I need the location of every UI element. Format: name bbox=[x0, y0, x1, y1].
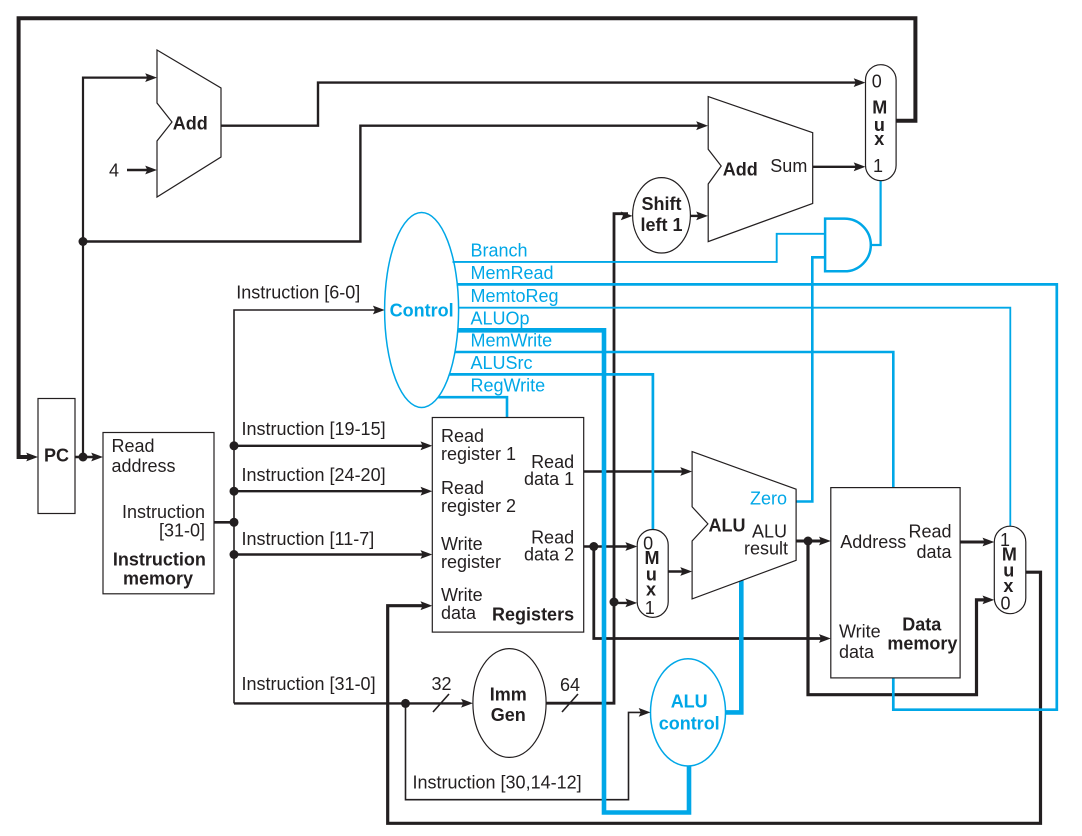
slash 32-bit bbox=[433, 694, 449, 712]
arrow into top mux input 1 bbox=[854, 162, 866, 171]
arrow into right mux input 0 bbox=[983, 596, 995, 605]
wire instruction bus vertical with branch to Control bbox=[234, 310, 380, 703]
svg-text:64: 64 bbox=[560, 675, 580, 695]
wire Imm Gen output up to Shift left 1 bbox=[546, 214, 628, 704]
Imm Gen ellipse bbox=[473, 649, 546, 758]
wire Read data 2 down to data memory write data bbox=[594, 547, 826, 639]
svg-text:Read: Read bbox=[112, 436, 155, 456]
svg-text:1: 1 bbox=[873, 156, 883, 176]
svg-text:Sum: Sum bbox=[770, 156, 807, 176]
svg-text:ALUOp: ALUOp bbox=[471, 309, 530, 329]
svg-text:MemRead: MemRead bbox=[471, 263, 554, 283]
svg-text:register 1: register 1 bbox=[441, 444, 516, 464]
wire Sum output to top mux input 1 bbox=[813, 166, 861, 168]
junction read data 2 bbox=[589, 542, 598, 551]
wire Instruction [31-0] to Imm Gen bbox=[234, 702, 468, 704]
wire PC feedback loop from top mux output around top and left to PC bbox=[19, 18, 916, 457]
svg-text:4: 4 bbox=[109, 161, 119, 181]
svg-text:Instruction [6-0]: Instruction [6-0] bbox=[236, 283, 360, 303]
arrow into ALU input 2 bbox=[680, 567, 692, 576]
wire Read data 2 to ALU mux input 0 bbox=[584, 545, 633, 547]
svg-text:data: data bbox=[916, 542, 952, 562]
svg-text:data 1: data 1 bbox=[524, 469, 574, 489]
svg-text:Read: Read bbox=[441, 426, 484, 446]
svg-text:address: address bbox=[112, 456, 176, 476]
svg-text:Instruction [24-20]: Instruction [24-20] bbox=[242, 465, 386, 485]
svg-text:Write: Write bbox=[839, 621, 881, 641]
junction ALU result bbox=[804, 537, 813, 546]
wire ALU result to data memory address bbox=[796, 540, 826, 543]
svg-text:1: 1 bbox=[645, 598, 655, 618]
wire write-back from right mux to registers write data bbox=[388, 572, 1041, 823]
svg-text:Instruction [31-0]: Instruction [31-0] bbox=[242, 674, 376, 694]
junction instr bus 11-7 bbox=[230, 550, 239, 559]
wire AND output to top mux select bbox=[871, 181, 881, 245]
adder Add Sum (branch target) bbox=[708, 97, 813, 242]
svg-text:Instruction: Instruction bbox=[113, 550, 206, 570]
wire ALU mux output to ALU bbox=[668, 570, 687, 572]
svg-text:Add: Add bbox=[723, 160, 758, 180]
wire MemtoReg control to right mux select bbox=[458, 308, 1010, 527]
arrow into write register bbox=[421, 550, 433, 559]
svg-text:result: result bbox=[744, 539, 788, 559]
svg-text:Write: Write bbox=[441, 585, 483, 605]
junction instr bus 19-15 bbox=[230, 441, 239, 450]
svg-text:32: 32 bbox=[431, 674, 451, 694]
wire PC to branch adder top input bbox=[83, 126, 703, 242]
svg-text:Address: Address bbox=[840, 532, 906, 552]
svg-text:Instruction [19-15]: Instruction [19-15] bbox=[242, 419, 386, 439]
svg-text:Zero: Zero bbox=[750, 489, 787, 509]
arrow into ALU mux input 0 bbox=[625, 542, 637, 551]
arrow into Add input 1 bbox=[145, 73, 157, 82]
svg-text:data: data bbox=[839, 642, 875, 662]
ALU bbox=[692, 452, 796, 599]
svg-text:Gen: Gen bbox=[491, 705, 526, 725]
slash 64-bit bbox=[562, 694, 578, 712]
arrow into read register 1 bbox=[421, 441, 433, 450]
wire Shift left 1 output to branch adder bbox=[690, 215, 703, 217]
instruction memory box bbox=[103, 433, 214, 594]
svg-text:RegWrite: RegWrite bbox=[471, 376, 546, 396]
arrow into PC bbox=[26, 453, 38, 462]
svg-text:Control: Control bbox=[390, 300, 454, 320]
svg-text:left 1: left 1 bbox=[640, 215, 682, 235]
wire Instruction [30,14-12] to ALU control bbox=[406, 703, 647, 799]
svg-text:0: 0 bbox=[872, 71, 882, 91]
wire Instruction [19-15] to read register 1 bbox=[234, 445, 428, 447]
arrow into data memory write data bbox=[819, 634, 831, 643]
wire Instruction [11-7] to write register bbox=[234, 553, 428, 555]
wire MemRead control to data memory bottom bbox=[457, 284, 1057, 709]
data memory box bbox=[831, 488, 960, 678]
arrow into Control bbox=[373, 306, 385, 315]
svg-text:Instruction: Instruction bbox=[122, 502, 205, 522]
arrow into ALU control bbox=[639, 708, 651, 717]
wire Add output PC+4 to top mux input 0 bbox=[221, 83, 861, 126]
svg-text:register: register bbox=[441, 552, 501, 572]
wire Instruction [24-20] to read register 2 bbox=[234, 490, 428, 492]
registers box bbox=[432, 418, 583, 633]
wire RegWrite control to registers bbox=[438, 397, 507, 417]
svg-text:x: x bbox=[646, 580, 656, 600]
wire data memory read data to right mux input 1 bbox=[960, 541, 989, 544]
arrow into read register 2 bbox=[421, 487, 433, 496]
wire Read data 1 to ALU bbox=[584, 470, 688, 472]
top mux (PC source) bbox=[866, 65, 897, 181]
wire ALU control output to ALU bbox=[725, 580, 741, 712]
svg-text:ALUSrc: ALUSrc bbox=[471, 353, 533, 373]
svg-text:Write: Write bbox=[441, 534, 483, 554]
svg-text:data 2: data 2 bbox=[524, 544, 574, 564]
write-back mux (right) bbox=[994, 526, 1026, 614]
wire PC output to instruction memory bbox=[75, 456, 98, 458]
junction PC output bbox=[79, 453, 88, 462]
svg-text:MemWrite: MemWrite bbox=[471, 330, 553, 350]
wire PC value riser to Add bbox=[83, 78, 152, 457]
arrow into Add Sum input 2 bbox=[696, 212, 708, 221]
svg-text:ALU: ALU bbox=[709, 516, 746, 536]
control unit ellipse bbox=[385, 213, 459, 408]
wire constant 4 into Add bbox=[127, 169, 152, 171]
svg-text:Instruction [11-7]: Instruction [11-7] bbox=[242, 529, 375, 549]
svg-text:x: x bbox=[874, 129, 884, 149]
arrow into ALU input 1 bbox=[680, 467, 692, 476]
svg-text:register 2: register 2 bbox=[441, 496, 516, 516]
junction PC riser / branch wire bbox=[79, 237, 88, 246]
svg-text:control: control bbox=[659, 714, 720, 734]
svg-text:PC: PC bbox=[44, 446, 69, 466]
arrow into ALU mux input 1 bbox=[625, 599, 637, 608]
AND gate (branch) bbox=[825, 219, 871, 272]
arrow into Shift left 1 bbox=[621, 212, 633, 221]
svg-text:Branch: Branch bbox=[471, 240, 528, 260]
svg-text:ALU: ALU bbox=[671, 692, 708, 712]
wire ALU result bypass to right mux input 0 bbox=[808, 541, 990, 695]
wire ALUSrc control to ALU mux select bbox=[449, 374, 653, 529]
svg-text:data: data bbox=[441, 603, 477, 623]
arrow into top mux input 0 bbox=[854, 78, 866, 87]
svg-text:0: 0 bbox=[1000, 594, 1010, 614]
svg-text:Shift: Shift bbox=[642, 194, 682, 214]
arrow into registers write data bbox=[421, 601, 433, 610]
svg-text:Read: Read bbox=[908, 521, 951, 541]
wire ALUOp control to ALU control unit bbox=[458, 330, 689, 812]
arrow into Add input 2 bbox=[145, 166, 157, 175]
svg-text:[31-0]: [31-0] bbox=[159, 521, 205, 541]
arrow into right mux input 1 bbox=[983, 538, 995, 547]
svg-text:Add: Add bbox=[173, 114, 208, 134]
arrow into Add Sum input 1 bbox=[696, 121, 708, 130]
svg-text:Instruction [30,14-12]: Instruction [30,14-12] bbox=[413, 773, 582, 793]
junction immediate to mux bbox=[610, 598, 619, 607]
junction instr bus 24-20 bbox=[230, 487, 239, 496]
svg-text:Imm: Imm bbox=[490, 685, 527, 705]
wire Zero flag to AND gate bbox=[796, 257, 825, 501]
adder Add (PC+4) bbox=[157, 50, 221, 197]
svg-text:Read: Read bbox=[441, 478, 484, 498]
svg-text:Data: Data bbox=[902, 615, 942, 635]
junction instr bus output bbox=[230, 518, 239, 527]
arrow into instruction memory bbox=[91, 453, 103, 462]
wire Branch control to AND gate bbox=[453, 234, 826, 262]
wire immediate to ALU mux input 1 bbox=[614, 602, 633, 604]
wire MemWrite control to data memory top bbox=[455, 352, 893, 488]
Shift left 1 ellipse bbox=[633, 178, 691, 253]
svg-text:memory: memory bbox=[887, 634, 957, 654]
ALU control ellipse bbox=[651, 659, 726, 766]
arrow into Imm Gen bbox=[461, 699, 473, 708]
svg-text:Registers: Registers bbox=[492, 604, 574, 624]
PC register box bbox=[38, 399, 75, 514]
junction instr 31-0 / 30,14-12 bbox=[401, 699, 410, 708]
svg-text:MemtoReg: MemtoReg bbox=[471, 286, 559, 306]
ALU source mux bbox=[637, 530, 668, 618]
svg-text:memory: memory bbox=[123, 568, 193, 588]
arrow into data memory address bbox=[819, 537, 831, 546]
wire instruction memory output bbox=[214, 521, 234, 524]
